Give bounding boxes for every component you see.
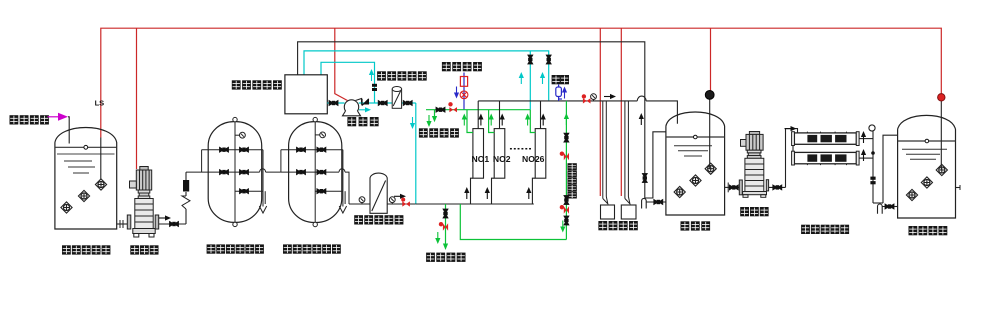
junction box <box>741 140 747 147</box>
label 高压泵 <box>740 207 768 216</box>
flow arrow right <box>359 107 371 112</box>
top vent circle <box>233 117 237 121</box>
acid tank <box>621 205 636 219</box>
valve 2 <box>564 195 569 204</box>
level tick 2 <box>68 166 95 168</box>
riser arrow 2 <box>500 114 505 126</box>
red drop to raw pump <box>136 28 138 169</box>
red level-control manifold <box>101 28 942 137</box>
manual valve zigzag <box>182 196 190 209</box>
bottom drain circle <box>313 222 317 226</box>
trap loop at return line bottom <box>642 198 647 208</box>
flow arrow cyan drop 1 <box>519 72 524 84</box>
red valve 1 <box>560 152 569 161</box>
cleaning pump 清洗泵 <box>343 99 362 116</box>
acid suction pipes <box>625 101 630 204</box>
arrow up near caps 2 <box>861 149 866 161</box>
row1 valve L <box>219 147 228 152</box>
product riser 2 <box>499 101 501 129</box>
level switch diamond 3 <box>61 202 72 213</box>
membrane module NO26 <box>535 129 546 179</box>
junction dot <box>871 151 875 155</box>
label 多介质处理器 <box>207 244 264 253</box>
flow arrow cyan drop 2 <box>540 72 545 84</box>
pump feet <box>134 234 139 238</box>
upper concentrate outlet <box>859 138 873 140</box>
tick 3 <box>910 158 936 160</box>
riser arrow 1 <box>478 114 483 126</box>
sample trap loop <box>878 204 886 214</box>
red valve 2 <box>560 205 569 214</box>
valve on suction <box>329 100 338 105</box>
lower membranes <box>807 154 846 161</box>
red valve on product manifold <box>582 94 591 103</box>
vent arrow up <box>562 87 567 99</box>
check valve flap <box>362 99 369 106</box>
filter body <box>370 173 387 213</box>
red drop to product tank level switch <box>710 28 712 90</box>
label 浓缩水正排 vertical <box>568 163 577 198</box>
flow arrow right <box>394 194 406 199</box>
membrane module NO1 <box>473 129 484 179</box>
label 反洗排水 upper <box>419 128 459 137</box>
level diamond 1 <box>936 164 947 175</box>
level switch red circle <box>938 94 945 101</box>
discharge flange <box>155 215 159 229</box>
tank outlet pipe <box>117 223 128 225</box>
pump column <box>135 199 153 229</box>
green backwash branch 2 <box>489 110 495 133</box>
gauge on center pipe <box>235 132 245 138</box>
svg-text:LS: LS <box>95 99 105 108</box>
pump neck stages <box>138 190 150 193</box>
cleaning pump suction <box>327 102 344 104</box>
row 2 piping with hop and outlet <box>281 169 349 204</box>
valve before cartridge filter <box>378 100 387 105</box>
svg-text:NO26: NO26 <box>522 154 545 164</box>
feed riser 3 <box>532 178 535 204</box>
level diamond 3 <box>674 186 685 197</box>
product riser 3 <box>540 101 542 129</box>
svg-text:NO2: NO2 <box>493 154 511 164</box>
stub into tank <box>894 206 898 208</box>
stub tick <box>959 185 961 190</box>
label 产水箱 <box>681 221 711 230</box>
junction box <box>130 181 137 188</box>
discharge flange <box>766 180 768 191</box>
air filter-regulator red box <box>460 77 467 87</box>
valve on cyan drop 1 <box>528 55 533 64</box>
gauge on product manifold <box>591 94 597 101</box>
lower vessel right cap <box>856 151 859 165</box>
cyan cleaning supply line 2 <box>321 62 375 103</box>
tick 2 <box>906 153 940 155</box>
product riser 1 <box>477 101 479 129</box>
svg-text:NO1: NO1 <box>472 154 490 164</box>
discharge pipe <box>159 223 186 225</box>
valve at tank bottom inlet <box>654 199 663 204</box>
outlet pipe <box>387 203 416 205</box>
cyan drop to feed line <box>415 103 417 204</box>
water line <box>666 136 725 138</box>
water line <box>898 140 956 142</box>
red valve on outlet <box>401 198 410 207</box>
valve 1 <box>564 133 569 142</box>
label 化学清洗箱 <box>232 80 282 89</box>
upper membranes <box>807 135 846 142</box>
flow arrow on product manifold <box>604 94 616 99</box>
label 压缩空气 <box>442 62 482 71</box>
side stub <box>956 187 961 189</box>
bottom inlet pipe <box>646 201 666 203</box>
inlet pipe <box>349 203 370 205</box>
outlet gauge <box>389 197 395 204</box>
feed arrow 3 <box>526 187 531 199</box>
alkali suction pipes <box>603 101 608 204</box>
tank outlet to HP pump <box>725 186 740 188</box>
row2 valve R <box>317 169 326 174</box>
tick 1 <box>902 148 947 150</box>
cyan cleaning supply line 1 <box>304 51 549 110</box>
green backwash branch 3 <box>530 110 535 133</box>
feed arrow 2 <box>485 187 490 199</box>
green backwash branch 1 <box>467 110 473 133</box>
union on concentrate drop <box>870 177 875 185</box>
valve on backwash line <box>436 107 445 112</box>
water line <box>55 146 117 148</box>
valve on cyan drop 2 <box>546 55 551 64</box>
label 精密过滤器 <box>377 71 427 80</box>
water line 2 <box>57 153 115 155</box>
label 原水进水 <box>10 115 49 124</box>
upper vessel right cap <box>856 132 859 146</box>
gauge on top <box>869 125 875 131</box>
tank shell <box>898 115 956 218</box>
tank shell 原水储存箱 <box>55 128 117 230</box>
center pipe <box>234 122 236 222</box>
level dip tube <box>100 138 102 180</box>
magenta inlet arrow <box>48 113 69 121</box>
level diamond 2 <box>921 177 932 188</box>
label 加碱加酸 <box>598 221 637 230</box>
valve on drain leg <box>443 209 448 218</box>
bottom drain leg <box>443 204 448 250</box>
left interstage link <box>792 146 794 152</box>
water node circle <box>694 135 698 139</box>
green branch arrow 2 <box>489 114 494 126</box>
row3 valve <box>317 189 326 194</box>
motor body <box>136 170 151 190</box>
inlet gauge <box>359 197 365 204</box>
label 活性碳过滤器 <box>283 244 341 253</box>
suction flange <box>739 180 742 195</box>
upper vessel shell <box>794 133 856 144</box>
feed riser <box>786 129 801 188</box>
flow arrow on cyan riser to line 2 <box>369 69 374 81</box>
red valve on drain leg <box>439 222 448 231</box>
vent valve body <box>556 85 562 101</box>
up arrow <box>564 113 569 125</box>
upper vessel left cap <box>792 132 795 146</box>
cartridge filter 精密过滤器 <box>392 87 401 109</box>
green branch arrow 1 <box>462 114 467 126</box>
bypass riser to tank top <box>883 135 898 203</box>
level tick 1 <box>64 160 92 162</box>
tick 2 <box>678 150 708 152</box>
tick 3 <box>684 155 702 157</box>
concentrate bottom run <box>873 202 883 204</box>
drain second line <box>264 191 266 204</box>
red drop to cleaning pump <box>335 28 348 100</box>
row2 valve R <box>239 169 248 174</box>
tank shell <box>666 112 725 215</box>
center pipe <box>314 122 316 223</box>
label 反洗排水 lower <box>426 253 465 262</box>
row 1 piping <box>281 149 343 151</box>
motor cap <box>140 167 148 171</box>
membrane module NO2 <box>494 129 505 179</box>
bottom drain circle <box>233 222 237 226</box>
row 3 piping <box>315 190 343 192</box>
valve after cartridge filter <box>403 100 412 105</box>
motor body <box>746 134 763 150</box>
gauge on center pipe <box>315 132 325 138</box>
lower concentrate outlet <box>859 157 873 159</box>
feed arrow 1 <box>464 187 469 199</box>
feed riser 2 <box>492 178 495 204</box>
level diamond 1 <box>705 163 716 174</box>
riser to filters <box>185 172 187 224</box>
level tick 3 <box>73 172 89 174</box>
row1 valve R <box>317 147 326 152</box>
arrow up near caps 1 <box>861 131 866 143</box>
feed riser 1 <box>471 178 473 204</box>
label 原水泵 <box>130 245 158 254</box>
floating drain arrow <box>435 232 440 244</box>
down arrow <box>560 221 565 233</box>
red drop to alkali dosing <box>599 28 601 196</box>
flow arrow up on return line <box>639 113 644 125</box>
row2 valve L <box>296 169 305 174</box>
riser arrow 3 <box>541 114 546 126</box>
neck stages <box>747 150 761 153</box>
label 原水储存箱 <box>62 245 110 254</box>
row1 valve R <box>239 147 248 152</box>
water node circle <box>925 139 929 143</box>
tick 1 <box>674 145 712 147</box>
check valve block <box>183 180 189 192</box>
level diamond 2 <box>690 175 701 186</box>
air line <box>463 73 465 110</box>
row 3 piping <box>235 190 263 192</box>
pump column <box>745 158 764 191</box>
row 2 feed piping with hop <box>186 169 281 172</box>
right drain manifold <box>342 150 344 207</box>
label 保安过滤器 <box>354 215 403 224</box>
label 排气 <box>552 75 569 84</box>
base <box>743 192 767 195</box>
left manifold <box>201 150 203 172</box>
alkali tank <box>601 205 615 219</box>
valve on return line <box>642 173 647 182</box>
level switch diamond 2 <box>78 190 89 201</box>
pump discharge line <box>359 102 416 104</box>
union check on cyan riser <box>372 84 377 91</box>
row1 valve L <box>296 147 305 152</box>
flow arrow after pump <box>159 215 171 220</box>
level dip tube <box>709 99 711 168</box>
level diamond 3 <box>906 189 917 200</box>
valve on outlet <box>729 185 738 190</box>
row3 valve <box>239 189 248 194</box>
red valve circle on air line <box>460 91 468 99</box>
suction flange <box>127 215 131 229</box>
inlet dip pipe <box>68 117 69 144</box>
red regulator on backwash line <box>448 102 457 112</box>
top vent circle <box>313 117 317 121</box>
pump base <box>133 229 155 234</box>
left manifold <box>280 150 282 172</box>
level switch diamond 1 <box>95 179 106 190</box>
label 清洗泵 <box>347 117 378 126</box>
water line node circle <box>84 145 88 149</box>
outlet flange ticks <box>120 220 123 228</box>
flow arrow down on drop <box>410 117 415 129</box>
green branch arrow 3 <box>525 114 530 126</box>
lower vessel shell <box>794 152 856 163</box>
floating drain arrow <box>426 115 431 127</box>
discharge pipe <box>769 186 786 188</box>
feet <box>743 195 748 198</box>
outlet flange tick <box>727 183 729 193</box>
cyan drop to backwash line <box>529 51 531 110</box>
valve 3 <box>564 216 569 225</box>
valve at reuse tank inlet <box>885 204 894 209</box>
level dip tube <box>940 101 942 170</box>
label 反渗透系统 <box>801 225 849 234</box>
air flow arrow down <box>454 87 459 99</box>
drain V symbol <box>259 206 266 213</box>
motor cap <box>749 132 759 135</box>
row 1 piping <box>202 149 263 151</box>
drain second line <box>344 191 346 204</box>
vessel shell <box>289 122 342 223</box>
valve on discharge <box>773 185 782 190</box>
black cleaning-return manifold <box>298 42 645 198</box>
right drain manifold <box>262 150 264 207</box>
row2 valve L <box>219 169 228 174</box>
product manifold <box>478 96 677 124</box>
vessel shell <box>208 122 262 223</box>
valve on discharge <box>169 221 178 226</box>
red drop to acid dosing <box>620 28 622 196</box>
bottom run and riser to tank top inlet <box>645 132 666 198</box>
concentrate drop line <box>872 131 874 203</box>
lower vessel left cap <box>792 151 795 165</box>
label 回用水箱 <box>909 226 948 235</box>
feed arrow <box>785 126 797 131</box>
level switch circle <box>705 91 714 100</box>
drain drop <box>432 110 437 123</box>
drain V symbol <box>339 206 346 213</box>
svg-text:......: ...... <box>509 142 532 153</box>
